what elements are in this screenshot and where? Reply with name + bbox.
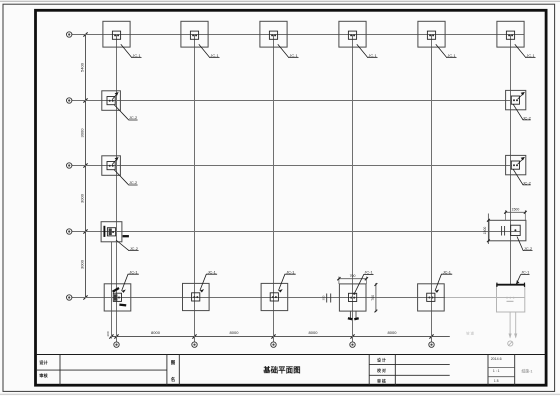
svg-text:JC-2: JC-2 — [524, 246, 532, 251]
left dim tick row 4 — [83, 229, 87, 233]
svg-text:坡 道: 坡 道 — [466, 331, 474, 336]
svg-text:8000: 8000 — [309, 330, 319, 335]
footing JC-1 top col 1 — [103, 21, 142, 58]
svg-text:名: 名 — [171, 376, 176, 383]
svg-text:图: 图 — [171, 359, 176, 366]
left dim tick row 5 — [83, 295, 87, 299]
svg-text:JC-1: JC-1 — [286, 269, 294, 274]
title block row line y375.3 — [369, 374, 450, 376]
svg-text:JC-1: JC-1 — [521, 270, 529, 275]
svg-text:JC-2: JC-2 — [523, 116, 531, 121]
title block vertical x514.7 — [514, 355, 516, 386]
axis column line 1 — [116, 35, 118, 343]
axis line row 3 — [72, 165, 512, 167]
grid bubble bottom col 3 — [271, 337, 276, 348]
svg-text:8000: 8000 — [230, 330, 240, 335]
dim 1500 top of right row4 footing — [504, 208, 527, 221]
footing JC-1 top col 3 — [260, 21, 299, 58]
footing JC-1 bottom col 2 — [183, 269, 218, 310]
scan edge bottom gray line — [0, 393, 560, 395]
title block sub row lines right cell — [488, 366, 515, 368]
svg-text:校 对: 校 对 — [377, 368, 386, 373]
bottom dim tick col 2 — [192, 334, 196, 338]
svg-text:8000: 8000 — [388, 330, 398, 335]
title block left cells divider — [36, 369, 167, 371]
footing JC-2 right row 4 rectangular — [489, 220, 533, 251]
axis line row 4 — [72, 231, 520, 233]
grid bubble left row 3 — [67, 163, 72, 168]
svg-text:1500: 1500 — [483, 227, 487, 235]
svg-text:设 计: 设 计 — [377, 358, 386, 363]
svg-text:JC-1: JC-1 — [132, 53, 140, 58]
footing JC-1 top col 6 — [497, 21, 536, 58]
bottom dim tick col 4 — [350, 334, 354, 338]
title block vertical x179.3 — [178, 355, 180, 386]
grid bubble left row 4 — [67, 229, 72, 234]
svg-text:1500: 1500 — [512, 208, 520, 212]
axis line row 1 — [72, 34, 524, 36]
svg-text:JC-2: JC-2 — [130, 246, 138, 251]
grid bubble left row 2 — [67, 98, 72, 103]
dim 700 top of col4 bottom footing — [337, 274, 368, 284]
axis line row 5 gray continuation — [445, 297, 525, 299]
svg-text:3000: 3000 — [80, 193, 85, 203]
svg-text:JC-1: JC-1 — [443, 269, 451, 274]
svg-text:结施-1: 结施-1 — [522, 369, 533, 374]
svg-text:JC-1: JC-1 — [526, 53, 534, 58]
footing JC-1 bottom col 3 — [261, 269, 296, 310]
title block vertical x166.9 — [166, 355, 168, 386]
svg-text:基础平面图: 基础平面图 — [262, 366, 300, 375]
svg-text:JC-1: JC-1 — [364, 270, 372, 275]
footing JC-1 top col 5 — [418, 21, 457, 58]
label JC-1 col4 bottom — [353, 270, 373, 295]
svg-text:700: 700 — [350, 274, 356, 278]
svg-text:700: 700 — [371, 295, 375, 301]
svg-text:1 8: 1 8 — [494, 379, 499, 383]
svg-text:8000: 8000 — [151, 330, 161, 335]
grid bubble bottom col 6 gray — [508, 341, 513, 346]
bold section line on gray footing top — [496, 283, 525, 287]
svg-text:JC-2: JC-2 — [523, 181, 531, 186]
title block vertical x60 — [59, 355, 61, 386]
svg-text:1 : 1: 1 : 1 — [493, 369, 500, 373]
left dimension line — [85, 35, 87, 298]
svg-text:JC-1: JC-1 — [289, 53, 297, 58]
svg-text:设计: 设计 — [39, 359, 48, 366]
footing JC-1 top col 4 — [339, 21, 378, 58]
title block vertical x488 — [487, 355, 489, 386]
title block row line y364.6 — [369, 364, 450, 366]
label JC-1 gray footing — [516, 270, 529, 285]
footing JC-2 left row 4 — [101, 222, 139, 251]
axis column line 4 — [352, 35, 354, 343]
svg-text:JC-1: JC-1 — [208, 269, 216, 274]
title block vertical x395.3 — [394, 355, 396, 386]
bottom dim tick col 1 — [114, 334, 118, 338]
title block vertical x369.2 — [368, 355, 370, 386]
footing JC-2 right row 3 — [506, 155, 531, 185]
grid bubble bottom col 1 — [114, 337, 119, 348]
svg-text:300: 300 — [322, 295, 326, 300]
bottom dimension line — [111, 336, 450, 338]
svg-text:3000: 3000 — [80, 259, 85, 269]
svg-text:JC-1: JC-1 — [447, 53, 455, 58]
scan edge top gray line — [0, 0, 560, 2]
bottom dim tick col 3 — [271, 334, 275, 338]
svg-text:5400: 5400 — [80, 62, 85, 72]
section cut marks below col4 bottom footing — [348, 311, 359, 319]
footing JC-2 left row 3 — [102, 156, 138, 185]
axis column line 6 — [510, 35, 512, 285]
svg-text:审核: 审核 — [39, 372, 48, 379]
axis column line 3 — [273, 35, 275, 343]
axis line row 5 — [72, 297, 445, 299]
gray extension lines with arrows — [509, 312, 518, 339]
grid bubble left row 1 — [67, 32, 72, 37]
dim 1500 left of right row4 footing — [483, 214, 490, 245]
title block top line — [36, 354, 546, 356]
axis line row 2 — [72, 100, 512, 102]
axis column line 5 — [431, 35, 433, 343]
bottom dim tick offset 200 — [109, 334, 113, 338]
svg-text:JC-1: JC-1 — [129, 269, 137, 274]
svg-text:JC-1: JC-1 — [368, 53, 376, 58]
grid bubble bottom col 4 — [350, 337, 355, 348]
grid bubble left row 5 — [67, 295, 72, 300]
axis column line 2 — [194, 35, 196, 343]
svg-text:JC-2: JC-2 — [129, 115, 137, 120]
left dim tick row 3 — [83, 163, 87, 167]
svg-text:2014.6: 2014.6 — [491, 357, 502, 361]
offset extension line col1 — [111, 242, 113, 339]
svg-text:审 核: 审 核 — [377, 379, 386, 384]
left dim tick row 2 — [83, 98, 87, 102]
left dim tick row 1 — [83, 32, 87, 36]
section cut bold marks bottom-left footing — [113, 288, 127, 305]
footing JC-1 bottom col 4 — [339, 284, 366, 311]
bottom dim tick col 5 — [429, 334, 433, 338]
footing JC-1 bottom col 5 — [418, 269, 453, 311]
dim 300 left of col4 bottom footing — [322, 294, 331, 303]
footing JC-2 right row 2 — [506, 90, 531, 120]
dim 700 right of col4 bottom footing — [371, 283, 378, 312]
svg-text:200: 200 — [106, 331, 110, 336]
svg-text:JC-2: JC-2 — [129, 180, 137, 185]
grid bubble bottom col 2 — [192, 337, 197, 348]
grid bubble bottom col 5 — [429, 337, 434, 348]
footing JC-1 bottom col 1 — [104, 269, 139, 311]
footing JC-2 left row 2 — [102, 91, 138, 120]
footing JC-1 top col 2 — [181, 21, 220, 58]
svg-text:3000: 3000 — [80, 128, 85, 138]
svg-text:JC-1: JC-1 — [210, 53, 218, 58]
gray footing bottom right — [497, 285, 525, 312]
